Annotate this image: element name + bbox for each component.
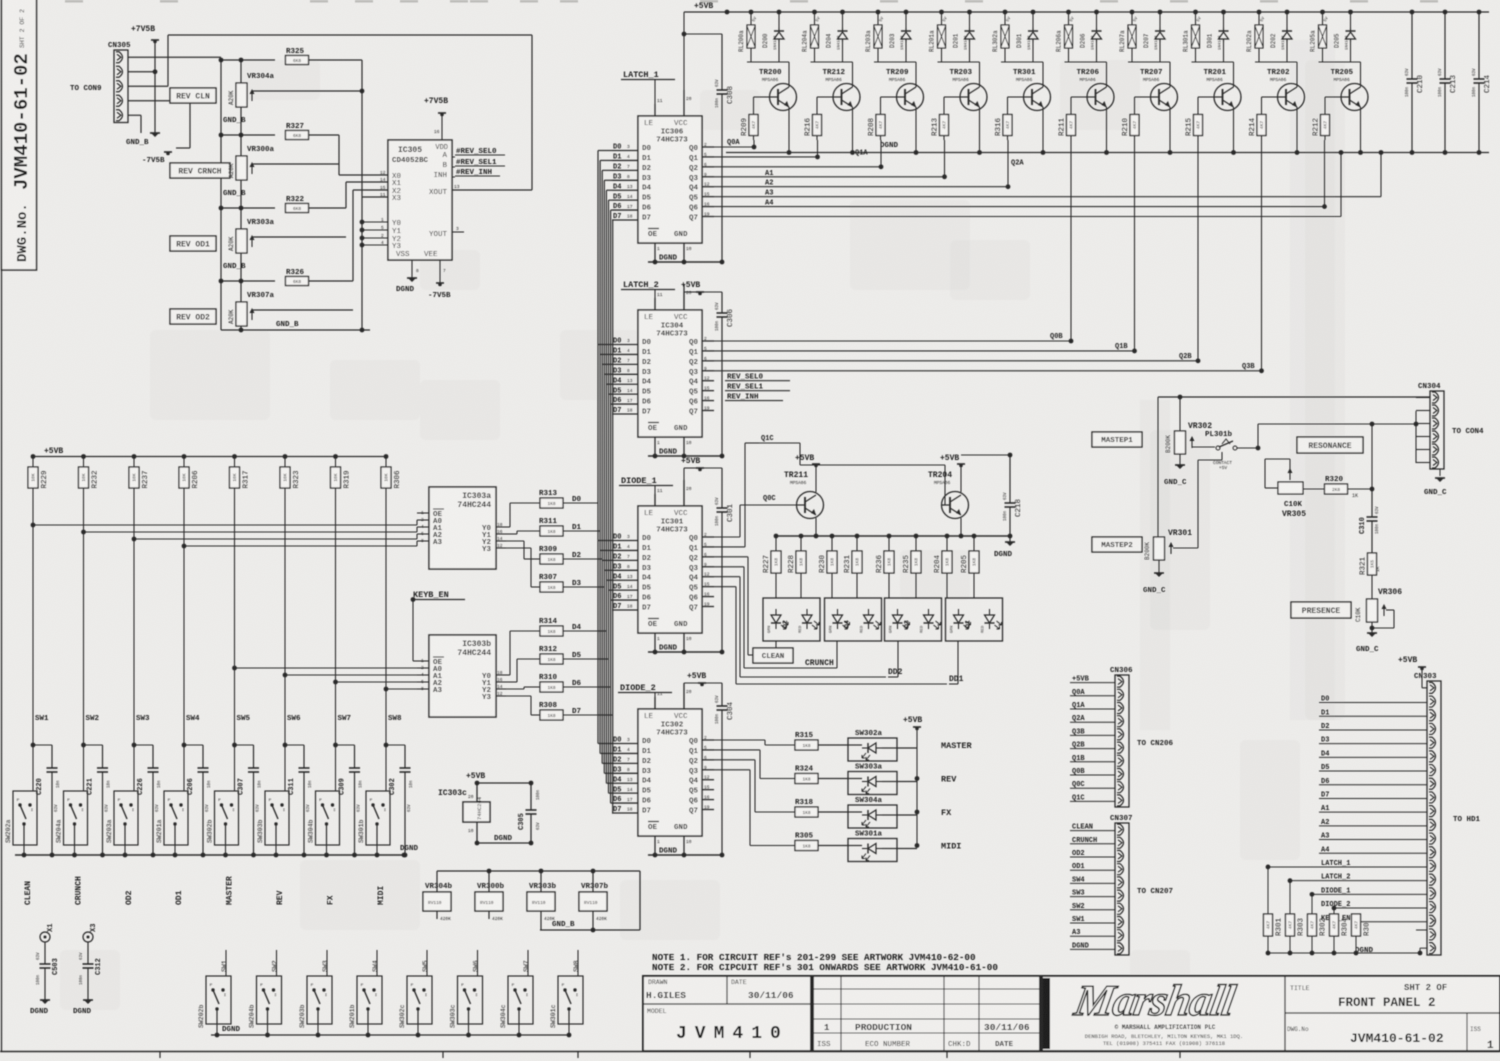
relay coil RL204a (814, 12, 816, 25)
resistor R313 (540, 498, 563, 508)
wire emitter TR212 (852, 107, 854, 153)
diode D301 (1032, 12, 1034, 28)
LED pair box D3 (885, 598, 942, 641)
ground DGND IC303c (476, 822, 478, 843)
relay coil RL301a (1195, 12, 1197, 25)
resistor R204 (945, 534, 950, 539)
resistor R322 (286, 204, 309, 213)
net label A1 bus (714, 176, 945, 178)
resistor R309 (540, 554, 563, 564)
switch SW202b (206, 976, 231, 1024)
latch IC302 74HC373 (638, 709, 702, 836)
wire Y0 IC303b to R314 (506, 674, 510, 676)
wire Q3B bus (714, 370, 1262, 372)
ground GND_C VR302 (1179, 454, 1181, 465)
diode D205 (1350, 12, 1352, 28)
resistor R321 (1368, 553, 1377, 575)
label DD1 (957, 641, 959, 684)
ground DGND rail under transistors (726, 152, 1489, 154)
wire row REV (818, 778, 848, 780)
wire X3 input (361, 91, 363, 247)
capacitor C312 (87, 942, 89, 964)
wire emitter TR200 (788, 107, 790, 153)
label box RESONANCE (1297, 437, 1363, 453)
wire top rail to XOUT (168, 34, 532, 36)
switch SW203b (307, 976, 332, 1024)
capacitor C306 (721, 292, 723, 313)
ground DGND under C218 (1009, 536, 1011, 542)
wire vertical bus x=221 (220, 60, 222, 330)
wire Q1A bus (714, 156, 818, 158)
wire collector node TR205 (1319, 61, 1361, 63)
wire collector node TR207 (1128, 61, 1170, 63)
wire R322 out (309, 207, 347, 209)
LED pair box D1 (946, 598, 1003, 641)
channel label box REV CRNCH (170, 163, 230, 178)
resistor R306 (384, 454, 389, 459)
ground DGND X1 (40, 999, 50, 1001)
title block ISS table (810, 976, 814, 1051)
wire emitter TR207 (1169, 107, 1171, 153)
wire collector node TR203 (938, 61, 980, 63)
wire Y1 IC303b to R312 (506, 681, 517, 683)
LED pair box D4 (825, 598, 882, 641)
label CRUNCH (836, 641, 838, 668)
ground GND_B under CN305 (150, 132, 160, 134)
power -7V5B under IC305 (439, 260, 441, 283)
diode D301 (1223, 12, 1225, 28)
wire collector node TR301 (1001, 61, 1043, 63)
resistor R314 (540, 626, 563, 636)
resistor R208 base series (881, 96, 897, 98)
wire row MIDI (818, 845, 848, 847)
resistor R205 (972, 534, 977, 539)
wire emitter TR201 (1233, 107, 1235, 153)
ground GND_C VR306 (1371, 622, 1373, 633)
ground GND_C VR301 (1158, 560, 1160, 573)
capacitor C307 (235, 744, 254, 746)
capacitor C308 (721, 34, 723, 90)
capacitor C210 (1411, 12, 1413, 79)
resistor R315 (795, 740, 818, 750)
resistor R302 (1311, 894, 1313, 914)
latch IC301 74HC373 (638, 506, 702, 633)
diode D202 (1286, 12, 1288, 28)
ground rail DGND resistors (1268, 952, 1420, 954)
capacitor C214 (1478, 12, 1480, 79)
capacitor C226 (134, 744, 153, 746)
net label A3 bus (714, 196, 1381, 198)
wire Q1B bus (714, 350, 1135, 352)
label box MASTEP2 (1092, 537, 1142, 552)
latch IC304 74HC373 (638, 310, 702, 437)
wire channel row REV CRNCH (221, 134, 275, 136)
resistor R211 base series (1071, 96, 1087, 98)
capacitor C311 (285, 744, 304, 746)
ground DGND rail switch row 2 (211, 1034, 570, 1036)
wire master top rail (1158, 396, 1430, 398)
wire emitter rail TR211 TR204 (815, 518, 817, 536)
relay coil RL302a (1004, 12, 1006, 25)
channel label box REV CLN (170, 88, 216, 103)
switch SW202a (13, 791, 37, 845)
wire collector node TR202 (1255, 61, 1297, 63)
resistor R216 base series (817, 96, 833, 98)
wire vertical pot chain x=241 (240, 60, 242, 330)
resistor R230 (830, 534, 835, 539)
switch SW301c (558, 976, 583, 1024)
resistor R227 (774, 534, 779, 539)
power +7V5B top left (151, 39, 159, 41)
wire Q0B bus (714, 340, 1071, 342)
wire R327 out (309, 134, 340, 136)
wire CN305 pin3 (128, 85, 168, 87)
resistor R311 (540, 526, 563, 536)
resistor R319 (333, 454, 338, 459)
wire Q2B bus (714, 360, 1198, 362)
label DD2 (897, 641, 899, 677)
resistor R214 base series (1262, 96, 1278, 98)
relay coil RL205a (1322, 12, 1324, 25)
resistor R310 (540, 682, 563, 692)
sheet border bottom (0, 1051, 1500, 1053)
resistor R317 (232, 454, 237, 459)
resistor R324 (795, 774, 818, 784)
wire emitter TR209 (915, 107, 917, 153)
wire collector node TR212 (811, 61, 853, 63)
diode D206 (1096, 12, 1098, 28)
wire emitter TR203 (979, 107, 981, 153)
wire CN305 pin4 (128, 100, 190, 102)
data bus D0-D7 vertical lines (597, 151, 599, 744)
wire Y3 IC303a to R307 (506, 547, 531, 549)
diode D200 (778, 12, 780, 28)
switch SW201b (357, 976, 382, 1024)
wires switch columns to IC303a inputs (31, 523, 36, 528)
wire VCC IC306 to +5VB rail (683, 12, 685, 90)
switch SW302c (407, 976, 432, 1024)
wire CN305 pin1 to channel node (128, 56, 221, 58)
buffer IC303a 74HC244 (429, 487, 496, 569)
net label A2 bus (714, 186, 1008, 188)
resistor R213 base series (944, 96, 960, 98)
resistor R318 (795, 807, 818, 817)
ground GND_C CN304 (1439, 469, 1441, 476)
capacitor C304 (721, 683, 723, 706)
ground rail GND_B bottom (221, 329, 370, 331)
wire Q7 IC306 (714, 216, 1341, 218)
switch SW303c (458, 976, 483, 1024)
resistor R232 (81, 454, 86, 459)
resistor R301 (1267, 867, 1269, 914)
relay coil RL202a (1258, 12, 1260, 25)
ground DGND X3 (83, 999, 93, 1001)
switch SW302b (215, 791, 239, 845)
resistor R304 (1333, 908, 1335, 914)
ground DGND under IC305 (411, 260, 413, 278)
switch SW301b (366, 791, 390, 845)
LED pair box D2 (763, 598, 820, 641)
capacitor C301 (721, 468, 723, 508)
buffer IC303b 74HC244 (429, 635, 496, 717)
net label A4 bus (714, 206, 1325, 208)
wire collector node TR209 (874, 61, 916, 63)
capacitor C218 (1009, 455, 1011, 503)
resistor R327 (286, 131, 309, 140)
resistor R312 (540, 654, 563, 664)
wire channel row REV OD2 (221, 280, 275, 282)
wire IC306 outputs (714, 146, 754, 148)
label box PRESENCE (1291, 602, 1351, 618)
resistor R236 (887, 534, 892, 539)
wire row MASTER (818, 744, 848, 746)
sheet border left (1, 0, 3, 1051)
wire Y3 IC303b to R308 (506, 695, 531, 697)
wires CN304 left bracket (1415, 411, 1417, 463)
resistor R316 base series (1008, 96, 1024, 98)
label CLEAN box (753, 648, 793, 663)
switch SW204a (64, 791, 88, 845)
wire emitter TR206 (1106, 107, 1108, 153)
wire Y1 IC303a to R311 (506, 533, 517, 535)
capacitor C221 (84, 744, 103, 746)
resistor R209 base series (754, 96, 770, 98)
capacitor C206 (184, 744, 203, 746)
wire VR305 left loop (1265, 487, 1278, 489)
resistor R228 (799, 534, 804, 539)
wires IC302 outputs to switch rows (714, 739, 765, 741)
capacitor C302 (386, 744, 405, 746)
wire R320 to C310 node (1348, 488, 1372, 490)
resistor R305 (795, 841, 818, 851)
wire emitter TR205 (1360, 107, 1362, 153)
title block frame (643, 976, 1500, 1051)
resistor R229 (31, 454, 36, 459)
wire Y0 IC303a to R313 (506, 526, 510, 528)
wire CN305 pin2 (128, 71, 155, 73)
resistor R215 base series (1198, 96, 1214, 98)
relay coil RL200a (750, 12, 752, 25)
wire R325 to wiper node (309, 59, 363, 61)
resistor R210 base series (1135, 96, 1151, 98)
Marshall logo (1043, 978, 1050, 1049)
wire emitter TR301 (1042, 107, 1044, 153)
wire collector node TR201 (1192, 61, 1234, 63)
wires switch columns to IC303b inputs (232, 666, 237, 671)
capacitor C305 (530, 783, 532, 810)
resistor R326 (286, 277, 309, 286)
switch SW201a (164, 791, 188, 845)
relay coil RL201a (941, 12, 943, 25)
channel label box REV OD1 (170, 236, 216, 251)
wire Y2 IC303b to R310 (506, 688, 524, 690)
resistor R303 (1289, 881, 1291, 914)
title section (1284, 976, 1286, 1051)
title block drawn section (726, 976, 728, 1004)
wire collector node TR206 (1065, 61, 1107, 63)
wire emitter TR202 (1296, 107, 1298, 153)
resistor R306b keyb_en pulldown (1355, 914, 1357, 922)
wire (154, 40, 156, 133)
potentiometer VR305 C10K (1278, 482, 1303, 494)
wire Y2 IC303a to R309 (506, 540, 524, 542)
wire Y inputs bus (360, 220, 365, 225)
switch SW204b (257, 976, 282, 1024)
diode D207 (1159, 12, 1161, 28)
resistor R325 (286, 56, 309, 65)
resistor R323 (283, 454, 288, 459)
resistor R206 (182, 454, 187, 459)
capacitor C503 (44, 942, 46, 964)
capacitor C310 (1371, 489, 1373, 517)
label box MASTEP1 (1092, 432, 1142, 447)
capacitor C309 (336, 744, 355, 746)
resistor R212 base series (1325, 96, 1341, 98)
power -7V5B under CN305 (164, 151, 172, 153)
op-amp mux IC305 CD4052BC (388, 140, 452, 260)
resistor R231 (855, 534, 860, 539)
capacitor C213 (1444, 12, 1446, 79)
wire Q2A bus (714, 166, 881, 168)
resistor R237 (132, 454, 137, 459)
wires IC301 outputs to LED columns (714, 556, 748, 558)
channel label box REV OD2 (170, 309, 216, 324)
relay coil RL207a (1131, 12, 1133, 25)
wire row FX (818, 811, 848, 813)
wire CN303 pin19 loop (1416, 929, 1427, 931)
switch SW203a (114, 791, 138, 845)
wire collector node TR200 (747, 61, 789, 63)
wire R326 out (309, 280, 354, 282)
relay coil RL206a (1068, 12, 1070, 25)
switch SW303b (265, 791, 289, 845)
switch SW304c (508, 976, 533, 1024)
ground DGND switch rail (15, 854, 404, 856)
resistor R308 (540, 710, 563, 720)
capacitor C220 (33, 744, 52, 746)
diode D203 (905, 12, 907, 28)
switch SW304b (316, 791, 340, 845)
wire VR-b top rail (437, 870, 640, 872)
resistor R307 (540, 582, 563, 592)
wire channel row REV OD1 (221, 207, 275, 209)
diode D204 (842, 12, 844, 28)
wire Q1 to Q1C (714, 546, 745, 548)
title box DWG.No JVM410-61-02 (2, 0, 37, 270)
wire contact to CN304 (1237, 447, 1258, 449)
wire CN305 pin5 (128, 114, 141, 116)
wire channel row REV CLN (221, 59, 275, 61)
resistor R235 (914, 534, 919, 539)
latch IC306 74HC373 (638, 116, 702, 243)
diode D201 (969, 12, 971, 28)
relay coil RL203a (877, 12, 879, 25)
resistor R320 (1325, 484, 1348, 494)
